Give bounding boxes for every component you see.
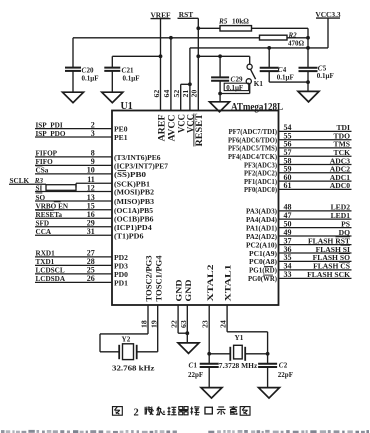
junction RST/R5 <box>196 26 200 30</box>
svg-text:K1: K1 <box>254 80 264 88</box>
pin wire/label LED2 pin 48 (right) <box>279 210 352 212</box>
junction RST/C29 branch <box>196 54 200 58</box>
wire R3 to pin 11 <box>75 183 77 187</box>
capacitor C1 bottom lead <box>208 367 210 388</box>
wire VCC net horizontal <box>190 47 328 49</box>
svg-text:0.1μF: 0.1μF <box>123 75 140 83</box>
svg-text:(MISO)PB3: (MISO)PB3 <box>114 197 154 206</box>
pin wire/label TDO pin 55 (right) <box>279 139 352 141</box>
capacitor C5 bottom lead <box>307 71 309 91</box>
capacitor C21 bottom lead <box>111 71 113 92</box>
capacitor C21 <box>104 67 120 69</box>
svg-text:GND: GND <box>184 279 193 301</box>
svg-text:CCA: CCA <box>36 228 52 236</box>
capacitor C29 top lead <box>219 56 221 77</box>
svg-text:SI: SI <box>36 184 43 192</box>
svg-text:CSa: CSa <box>36 167 49 175</box>
wire TOSC2 pin 18 down-left <box>147 305 149 334</box>
svg-text:TOSC2/PG3: TOSC2/PG3 <box>145 256 154 302</box>
capacitor C5 <box>299 67 318 69</box>
wire AVCC net horizontal (C20 to R2) <box>73 37 260 39</box>
wire VCC3.3 vertical <box>327 18 329 48</box>
svg-text:ATmega128L: ATmega128L <box>231 102 283 113</box>
pin wire/label TMS pin 56 (right) <box>279 147 352 149</box>
ground (C4/C5) <box>298 91 319 102</box>
junction C29 top <box>218 54 222 58</box>
svg-text:RESET: RESET <box>194 114 204 147</box>
capacitor C4 <box>260 67 279 69</box>
svg-text:FIFO: FIFO <box>36 158 54 166</box>
wire GND pins 22/63 to ground <box>177 305 179 333</box>
pin wire/label ADC2 pin 59 (right) <box>279 172 352 174</box>
svg-text:1: 1 <box>194 361 198 369</box>
pin wire/label CSa pin 10 (left) <box>35 173 112 175</box>
wire XTAL2 pin 23 down <box>208 305 210 364</box>
wire VCC pin 52 vertical with jog <box>180 84 182 110</box>
svg-text:3: 3 <box>91 129 95 138</box>
svg-text:LCDSDA: LCDSDA <box>36 275 66 283</box>
svg-text:20: 20 <box>190 90 199 98</box>
pin wire/label VRBO EN pin 15 (left) <box>35 209 112 211</box>
svg-text:LCDSCL: LCDSCL <box>36 267 65 275</box>
svg-text:FIFOP: FIFOP <box>36 150 58 158</box>
resistor R3 body <box>46 185 76 191</box>
svg-text:XTAL1: XTAL1 <box>224 265 233 302</box>
switch K1 lever <box>251 69 256 79</box>
pin wire/label RESETa pin 16 (left) <box>35 217 112 219</box>
wire R5 left lead to RST net <box>198 27 220 29</box>
svg-text:R3: R3 <box>34 177 44 185</box>
svg-text:2: 2 <box>134 408 139 419</box>
svg-text:22: 22 <box>170 320 179 328</box>
svg-text:PF0(ADC0): PF0(ADC0) <box>244 185 277 194</box>
svg-text:64: 64 <box>162 90 171 98</box>
svg-text:24: 24 <box>219 320 228 328</box>
pin wire/label TDI pin 54 (right) <box>279 130 352 132</box>
svg-text:13: 13 <box>87 193 95 202</box>
wire VREF/AREF vertical to pin 62 <box>160 19 162 111</box>
junction GND tie <box>185 331 189 335</box>
svg-text:ISP PDO: ISP PDO <box>36 130 66 138</box>
svg-text:AREF: AREF <box>156 114 166 142</box>
svg-text:(SS)PB0: (SS)PB0 <box>114 170 146 179</box>
svg-text:PD1: PD1 <box>114 278 128 287</box>
ground (C1) <box>201 388 222 399</box>
svg-text:(T1)PD6: (T1)PD6 <box>114 231 144 240</box>
pin wire/label ADC0 pin 61 (right) <box>279 188 352 190</box>
svg-text:XTAL2: XTAL2 <box>206 265 215 302</box>
svg-text:FLASH SCK: FLASH SCK <box>307 270 350 279</box>
junction R2/tie <box>306 36 310 40</box>
junction C29 ground <box>218 92 222 96</box>
svg-text:22pF: 22pF <box>278 371 293 379</box>
svg-text:23: 23 <box>201 320 210 328</box>
junction XTAL2 node <box>207 352 211 356</box>
capacitor C1 <box>200 363 219 365</box>
svg-text:0.1μF: 0.1μF <box>226 84 243 92</box>
svg-text:52: 52 <box>172 90 181 98</box>
svg-text:26: 26 <box>87 274 95 283</box>
pin wire/label SI pin 12 (left) <box>35 191 112 193</box>
junction C5/tie tap <box>306 46 310 50</box>
svg-text:2: 2 <box>284 362 288 370</box>
capacitor C4 top lead <box>268 48 270 68</box>
capacitor C20 top lead <box>72 38 74 68</box>
pin wire/label PS pin 50 (right) <box>279 227 352 229</box>
svg-text:AVCC: AVCC <box>167 115 177 142</box>
svg-text:RXD1: RXD1 <box>36 250 56 258</box>
resistor R5 body <box>220 26 252 31</box>
wire K1 bottom to ground line <box>220 93 250 95</box>
svg-text:GND: GND <box>175 279 184 301</box>
capacitor C2 <box>258 363 277 365</box>
wire AVCC pin 64 vertical <box>170 38 172 111</box>
wire TOSC1 pin 19 down <box>157 305 159 352</box>
svg-text:10kΩ: 10kΩ <box>232 18 249 26</box>
junction AVCC pin 64 <box>169 36 173 40</box>
capacitor C4 bottom lead <box>268 71 270 82</box>
pin wire/label RXD1 pin 27 (left) <box>35 256 112 258</box>
crystal Y1 <box>209 353 230 355</box>
pin wire/label ISP PDI pin 2 (left) <box>35 128 112 130</box>
svg-text:7.3728 MHz: 7.3728 MHz <box>219 362 257 370</box>
wire VCC pins vertical (pin 21) <box>189 48 191 111</box>
pin wire/label FLASH SCK pin 33 (right) <box>279 277 352 279</box>
capacitor C29 <box>211 76 229 78</box>
wire R5/R2/C5 vertical tie <box>307 28 309 48</box>
microcontroller U1 ATmega128L chip body <box>112 111 279 306</box>
svg-text:0.1μF: 0.1μF <box>277 73 294 81</box>
svg-text:RESETa: RESETa <box>36 211 63 219</box>
pin wire/label FIFOP pin 8 (left) <box>35 156 112 158</box>
junction XTAL1 node <box>266 352 270 356</box>
svg-text:20: 20 <box>87 66 95 74</box>
capacitor C29 value box 0.1uF <box>224 83 249 90</box>
resistor R2 body <box>260 35 288 40</box>
svg-text:SFD: SFD <box>36 220 50 228</box>
capacitor C29 bottom lead <box>219 81 221 102</box>
crystal Y2 <box>100 351 119 353</box>
pin wire/label TXD1 pin 28 (left) <box>35 264 112 266</box>
svg-text:31: 31 <box>87 227 95 236</box>
junction AREF/C21 <box>159 54 163 58</box>
svg-text:32.768 kHz: 32.768 kHz <box>112 365 155 373</box>
svg-text:61: 61 <box>284 181 292 190</box>
capacitor C2 bottom lead <box>267 367 269 388</box>
ground (chip GND symbol beside name) <box>210 102 230 112</box>
pin wire/label ADC3 pin 58 (right) <box>279 164 352 166</box>
svg-text:SO: SO <box>36 194 46 202</box>
ground (chip GND pins) <box>178 343 199 354</box>
pin wire/label LED1 pin 47 (right) <box>279 218 352 220</box>
wire RST elbow to RESET pin 20 vertical <box>194 17 199 19</box>
svg-text:33: 33 <box>284 270 292 279</box>
pin wire/label DQ pin 49 (right) <box>279 235 352 237</box>
pin wire/label TCK pin 57 (right) <box>279 155 352 157</box>
pin wire/label FLASH CS pin 34 (right) <box>279 269 352 271</box>
pin wire/label FLASH SO pin 35 (right) <box>279 260 352 262</box>
ground (C20) <box>63 92 84 103</box>
wire R2 right lead <box>287 37 308 39</box>
svg-text:12: 12 <box>87 183 95 192</box>
svg-text:TXD1: TXD1 <box>36 258 55 266</box>
junction VCC jog <box>188 82 192 86</box>
pin wire/label CCA pin 31 (left) <box>35 234 112 236</box>
capacitor C20 <box>65 67 81 69</box>
svg-text:10: 10 <box>87 166 95 175</box>
capacitor C5 top lead (on tie) <box>307 48 309 68</box>
capacitor C20 bottom lead <box>72 71 74 92</box>
svg-text:22pF: 22pF <box>188 371 203 379</box>
decorative: bottom cut-off text line <box>1 430 5 433</box>
ground (C2) <box>259 388 280 399</box>
pin wire/label LCDSDA pin 26 (left) <box>35 281 112 283</box>
wire XTAL1 pin 24 elbow down <box>226 305 228 332</box>
pin wire/label ADC1 pin 60 (right) <box>279 180 352 182</box>
svg-text:29: 29 <box>236 75 244 83</box>
svg-text:Y1: Y1 <box>235 334 244 342</box>
junction C4/C5 ground <box>306 80 310 84</box>
svg-text:21: 21 <box>127 66 135 74</box>
pin wire/label SFD pin 29 (left) <box>35 226 112 228</box>
svg-text:62: 62 <box>152 90 161 98</box>
svg-text:18: 18 <box>140 320 149 328</box>
ground (C21) <box>102 92 123 103</box>
junction C4 tap <box>267 46 271 50</box>
svg-text:470Ω: 470Ω <box>288 39 305 47</box>
pin wire/label FLASH RST pin 37 (right) <box>279 244 352 246</box>
pin wire/label FLASH SI pin 36 (right) <box>279 252 352 254</box>
svg-text:11: 11 <box>87 175 95 184</box>
capacitor C21 top lead and wire to AREF net <box>112 55 160 57</box>
svg-text:ADC0: ADC0 <box>330 181 350 190</box>
wire R5 right lead <box>252 27 309 29</box>
svg-text:0.1μF: 0.1μF <box>82 75 99 83</box>
svg-text:ISP PDI: ISP PDI <box>36 121 63 129</box>
svg-text:VRBO EN: VRBO EN <box>36 203 69 211</box>
svg-text:(MOSI)PB2: (MOSI)PB2 <box>114 188 154 197</box>
switch K1 contacts <box>247 64 252 69</box>
svg-text:U1: U1 <box>121 101 133 112</box>
svg-text:PE1: PE1 <box>114 133 128 142</box>
figure caption: 图2 微处理器接口示意图 <box>113 407 123 416</box>
pin wire/label FIFO pin 9 (left) <box>35 164 112 166</box>
svg-text:TOSC1/PG4: TOSC1/PG4 <box>154 256 163 302</box>
pin wire/label LCDSCL pin 25 (left) <box>35 273 112 275</box>
pin wire/label ISP PDO pin 3 (left) <box>35 136 112 138</box>
svg-text:0.1μF: 0.1μF <box>317 72 334 80</box>
svg-text:Y2: Y2 <box>122 336 131 344</box>
pin wire/label SO pin 13 (left) <box>35 200 112 202</box>
svg-text:R5: R5 <box>218 18 228 26</box>
svg-text:PG0(WR): PG0(WR) <box>248 274 277 283</box>
wire RST net to switch <box>198 55 249 57</box>
